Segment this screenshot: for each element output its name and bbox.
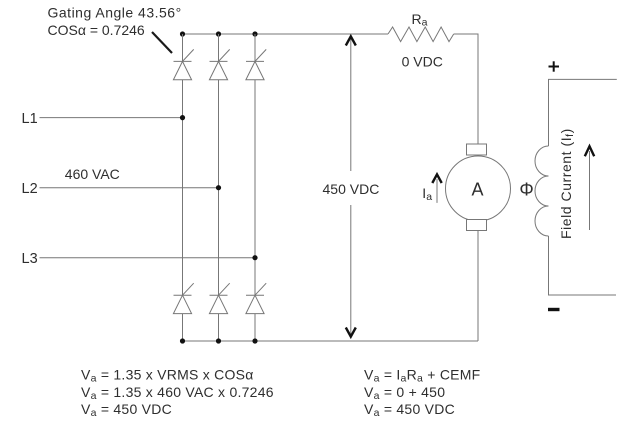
wire: resistor to armature top	[454, 34, 478, 144]
arrowhead down of 450 VDC	[346, 328, 356, 337]
svg-text:Va = 1.35 x VRMS x COSα: Va = 1.35 x VRMS x COSα	[81, 367, 254, 385]
node: top bus junction col3	[252, 31, 257, 36]
svg-text:Va = IaRa + CEMF: Va = IaRa + CEMF	[364, 367, 480, 385]
wire: bottom DC bus	[183, 340, 479, 342]
svg-text:Gating Angle 43.56°: Gating Angle 43.56°	[48, 5, 182, 21]
SCR bottom bank 2	[209, 283, 229, 341]
SCR top bank 2	[209, 34, 229, 295]
wire: field top	[549, 79, 617, 146]
wire: L2 input	[40, 187, 219, 189]
SCR bottom bank 1	[173, 283, 193, 341]
minus terminal	[548, 308, 560, 311]
SCR top bank 3	[246, 34, 266, 295]
node: bottom bus junction col2	[216, 338, 221, 343]
node: bottom bus junction col3	[252, 338, 257, 343]
svg-text:450 VDC: 450 VDC	[323, 181, 380, 197]
arrowhead up of 450 VDC	[346, 36, 356, 45]
svg-text:0 VDC: 0 VDC	[402, 53, 443, 69]
node: bottom bus junction col1	[180, 338, 185, 343]
wire: L3 input	[40, 257, 256, 259]
node: L1 junction	[180, 115, 185, 120]
field current arrow	[589, 151, 591, 230]
svg-text:L2: L2	[22, 181, 38, 197]
node: L3 junction	[252, 255, 257, 260]
svg-text:Va = 0 + 450: Va = 0 + 450	[364, 384, 445, 402]
wire: top DC bus	[183, 33, 389, 35]
current arrow Ia	[436, 179, 438, 203]
node: top bus junction col1	[180, 31, 185, 36]
svg-text:Va = 450 VDC: Va = 450 VDC	[364, 401, 455, 419]
node: top bus junction col2	[216, 31, 221, 36]
svg-text:Φ: Φ	[519, 180, 533, 200]
node: L2 junction	[216, 185, 221, 190]
svg-text:COSα = 0.7246: COSα = 0.7246	[48, 22, 145, 38]
svg-text:L3: L3	[22, 251, 38, 267]
leader line to SCR1 gate	[152, 32, 172, 53]
wire: L1 input	[40, 117, 183, 119]
measurement arrow 450 VDC	[350, 38, 352, 336]
motor armature circle A	[446, 156, 511, 221]
svg-text:Va = 1.35 x 460 VAC x 0.7246: Va = 1.35 x 460 VAC x 0.7246	[81, 384, 274, 402]
svg-text:Ra: Ra	[412, 11, 428, 29]
wire: armature bottom to bus	[477, 231, 479, 342]
plus terminal	[549, 61, 560, 71]
svg-text:A: A	[471, 180, 483, 200]
svg-text:460 VAC: 460 VAC	[65, 166, 120, 182]
svg-text:Va = 450 VDC: Va = 450 VDC	[81, 401, 172, 419]
svg-text:Ia: Ia	[422, 185, 432, 203]
resistor Ra	[388, 27, 454, 42]
motor armature brush top	[467, 144, 487, 155]
svg-text:Field Current (If): Field Current (If)	[558, 128, 576, 239]
field coil (3 arcs)	[535, 146, 549, 236]
svg-text:L1: L1	[22, 111, 38, 127]
SCR bottom bank 3	[246, 283, 266, 341]
wire: field bottom	[549, 236, 617, 295]
SCR top bank 1	[173, 34, 193, 295]
motor armature brush bottom	[467, 220, 487, 231]
